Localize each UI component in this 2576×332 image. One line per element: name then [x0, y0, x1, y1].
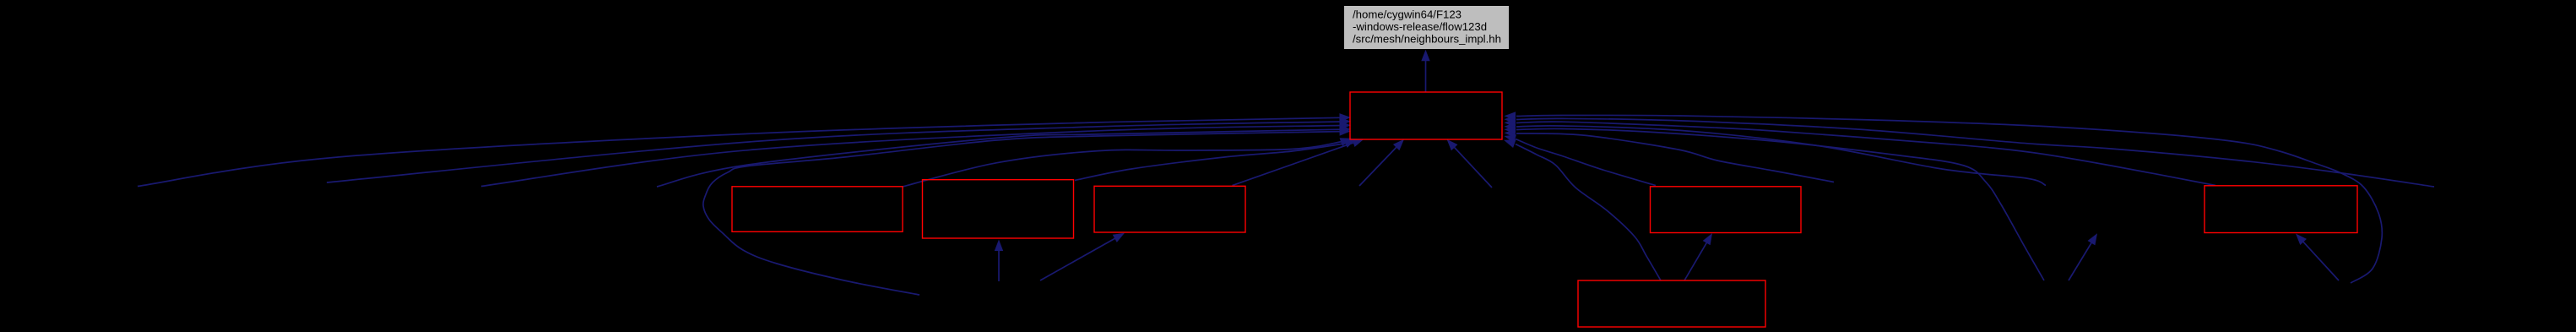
wire long curved edge from right-bottom hidden node 2 around box E	[1505, 112, 2383, 283]
wire long curved edge from bottom-left hidden node around box A	[703, 127, 1351, 295]
wire edge from hidden node b	[1447, 139, 1493, 188]
node B (truncated include, red border)	[923, 180, 1074, 238]
wire arrow into box E from below	[2296, 234, 2339, 281]
wire edge from far-left node 2	[327, 117, 1351, 182]
svg-text:-windows-release/flow123d: -windows-release/flow123d	[1353, 20, 1487, 33]
wire edge from hidden node a	[1359, 139, 1404, 186]
wire edge from box A	[903, 138, 1352, 187]
wire edge from right hidden node 2	[1505, 122, 2047, 186]
wire edge from right hidden node 1	[1505, 129, 1835, 182]
wire arrow into box C from below	[1040, 233, 1125, 280]
svg-text:/home/cygwin64/F123: /home/cygwin64/F123	[1353, 8, 1462, 21]
wire curved edge from right-bottom hidden node 1	[1505, 125, 2045, 280]
wire arrow into box B from below	[995, 240, 1003, 282]
wire edge from far-left node 3	[481, 121, 1351, 186]
wire edge from box E	[1505, 118, 2216, 185]
wire edge from central node to current file node	[1421, 50, 1429, 92]
wire edge from box D	[1505, 134, 1657, 185]
node D (truncated include, red border)	[1651, 187, 1802, 233]
node C (truncated include, red border)	[1094, 186, 1245, 232]
wire edge from box C	[1233, 139, 1364, 185]
wire arrow into box D from bottom red node	[1684, 233, 1712, 280]
wire curved edge from bottom red node	[1504, 139, 1661, 280]
node E (truncated include, red border)	[2205, 186, 2357, 233]
wire edge from far-left node 1	[138, 113, 1351, 186]
node central includer (truncated include, red border)	[1350, 92, 1502, 139]
wire arrow into right hidden node from below	[2069, 233, 2097, 280]
node bottom (truncated include, red border)	[1578, 280, 1765, 327]
wire edge from far-right hidden node	[1505, 115, 2435, 187]
wire edge from far-left node 4	[657, 125, 1351, 187]
svg-text:/src/mesh/neighbours_impl.hh: /src/mesh/neighbours_impl.hh	[1353, 33, 1501, 46]
node current file: /home/cygwin64/F123-windows-release/flow123d/src/mesh/neighbours_impl.hh	[1344, 6, 1509, 49]
node A (truncated include, red border)	[732, 187, 903, 231]
wire edge from box B	[1075, 139, 1356, 181]
